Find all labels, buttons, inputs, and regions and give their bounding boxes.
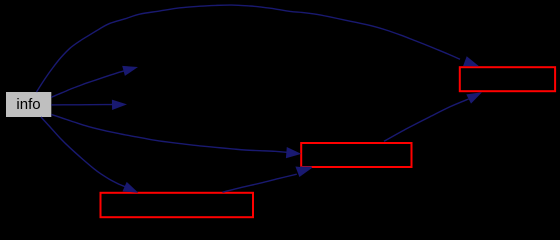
svg-text:info: info [16,96,40,113]
